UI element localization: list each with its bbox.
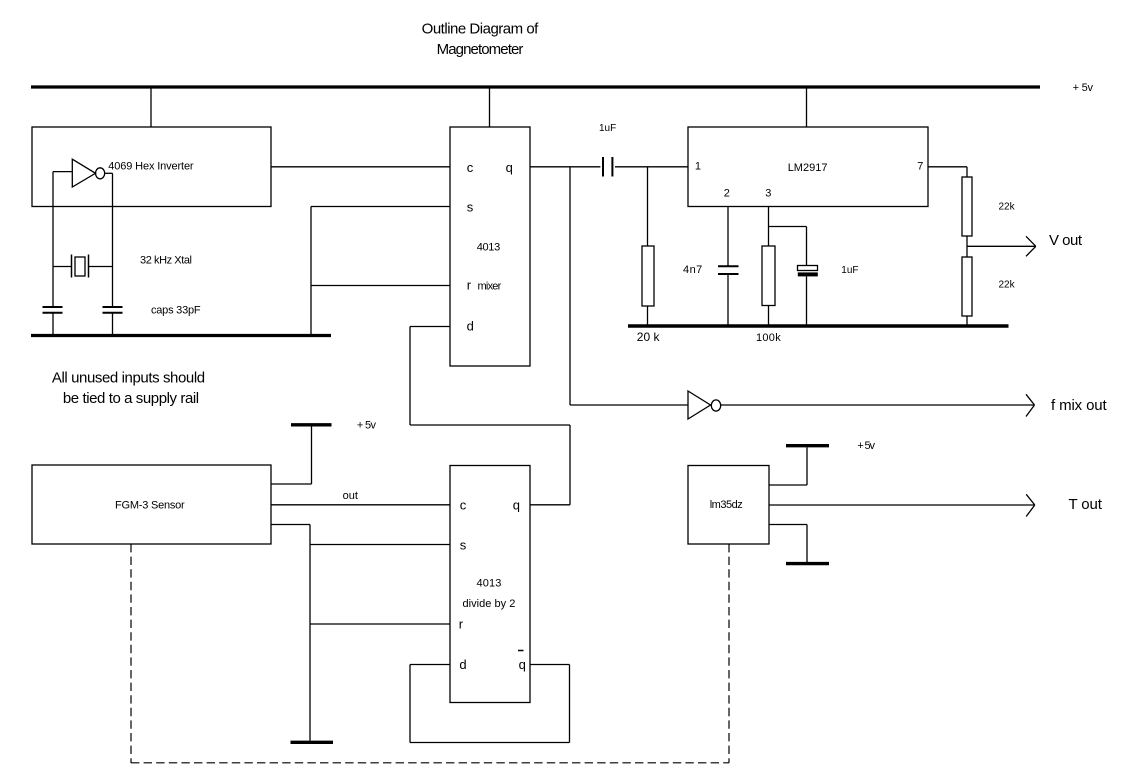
wire divider q to mixer d	[530, 504, 570, 506]
svg-text:4069 Hex Inverter: 4069 Hex Inverter	[108, 160, 194, 172]
svg-text:c: c	[460, 497, 467, 512]
crystal X1 32 kHz	[53, 266, 72, 268]
svg-text:divide by 2: divide by 2	[463, 598, 516, 610]
+5v supply bar FGM	[291, 423, 332, 426]
capacitor C4 4n7	[718, 265, 739, 267]
svg-text:V out: V out	[1049, 232, 1083, 249]
qbar overbar	[518, 650, 524, 652]
capacitor C1 33pF	[43, 306, 63, 308]
wire right feedback vertical	[112, 173, 114, 306]
wire left feedback vertical	[52, 172, 54, 306]
svg-text:s: s	[467, 200, 474, 215]
wire rail to 4013 mixer	[489, 89, 491, 128]
wire lm35 supply	[806, 447, 808, 485]
+5v supply bar lm35	[786, 444, 829, 447]
svg-text:All unused inputs should: All unused inputs should	[52, 370, 205, 387]
resistor R2 100k	[762, 246, 775, 306]
svg-text:4013: 4013	[477, 241, 501, 253]
inverter gate U1b f mix	[688, 391, 711, 419]
svg-text:lm35dz: lm35dz	[710, 499, 743, 511]
ground bus left	[31, 334, 331, 337]
wire pin 3 branch to C5	[769, 226, 807, 228]
wire rail to 4069 box	[150, 89, 152, 128]
dashed sensor cable right	[728, 544, 730, 763]
IC U3 LM2917 box	[688, 127, 928, 207]
svg-text:caps 33pF: caps 33pF	[151, 305, 201, 317]
svg-text:4013: 4013	[477, 578, 502, 590]
wire mixer r pin	[311, 285, 450, 287]
ground bus under LM2917	[628, 324, 1009, 328]
wire f mix out	[721, 404, 1034, 406]
wire FGM out to divider clock	[271, 504, 450, 506]
IC U5 lm35dz box	[688, 466, 769, 545]
svg-text:f mix out: f mix out	[1051, 397, 1108, 414]
resistor R4 22k	[962, 257, 972, 316]
arrow T out	[1026, 494, 1035, 516]
svg-text:r: r	[459, 617, 464, 632]
wire V out	[967, 245, 1035, 247]
inverter gate U1a	[72, 159, 95, 187]
note text	[52, 370, 205, 407]
ground bar lm35	[786, 562, 829, 565]
wire FGM supply	[311, 427, 313, 485]
wire mixer d feedback path	[410, 326, 450, 328]
svg-text:22k: 22k	[999, 279, 1016, 290]
IC U1 4069 Hex Inverter box	[32, 127, 271, 207]
svg-text:2: 2	[724, 187, 730, 199]
dashed sensor cable left	[130, 544, 132, 763]
wire divider s pin	[310, 544, 450, 546]
svg-text:1: 1	[695, 161, 701, 173]
resistor R1 20k	[642, 246, 654, 306]
wire pin 7 to divider	[928, 166, 967, 168]
capacitor C5 1uF electrolytic	[798, 266, 818, 271]
resistor R3 22k	[962, 177, 972, 236]
capacitor C2 33pF	[103, 306, 123, 308]
wire pin 2 down	[727, 207, 729, 266]
+5v power rail	[31, 85, 1040, 88]
svg-text:1uF: 1uF	[841, 265, 858, 276]
IC U2 4013 mixer box	[450, 127, 530, 366]
svg-text:be tied to a supply rail: be tied to a supply rail	[63, 390, 199, 407]
svg-text:s: s	[460, 538, 467, 553]
svg-text:d: d	[467, 319, 474, 334]
wire pin 3 down	[768, 207, 770, 247]
ground bar bottom	[291, 741, 334, 744]
svg-text:3: 3	[765, 187, 771, 199]
wire T out	[769, 504, 1034, 506]
IC U4 4013 divide by 2 box	[450, 466, 530, 703]
wire rail to LM2917	[806, 89, 808, 128]
wire pin1 node down to R 20k	[647, 167, 649, 246]
svg-text:+ 5v: + 5v	[857, 440, 875, 452]
svg-text:q: q	[513, 497, 520, 512]
svg-text:100k: 100k	[756, 332, 781, 344]
svg-text:mixer: mixer	[478, 280, 502, 292]
dashed sensor cable bottom	[131, 762, 729, 764]
wire mixer q down to f mix inverter	[569, 167, 571, 405]
capacitor C3 1uF coupling	[602, 157, 604, 177]
wire mixer q output	[530, 166, 600, 168]
svg-text:1uF: 1uF	[599, 123, 616, 134]
arrow f mix out	[1026, 394, 1035, 416]
wire 4069 output to mixer clock c	[271, 166, 450, 168]
wire to f mix inverter	[570, 404, 688, 406]
svg-text:Magnetometer: Magnetometer	[437, 41, 524, 58]
wire divider r pin	[310, 623, 450, 625]
svg-text:Outline Diagram of: Outline Diagram of	[422, 21, 540, 38]
svg-text:LM2917: LM2917	[788, 162, 828, 174]
svg-text:+ 5v: + 5v	[1073, 82, 1094, 94]
svg-text:q: q	[506, 160, 513, 175]
svg-text:32 kHz Xtal: 32 kHz Xtal	[140, 255, 192, 267]
wire lm35 ground	[769, 524, 807, 526]
svg-text:out: out	[343, 490, 358, 502]
svg-text:+ 5v: + 5v	[357, 420, 377, 432]
svg-text:T out: T out	[1069, 496, 1103, 513]
svg-text:q: q	[519, 657, 526, 672]
svg-text:c: c	[467, 160, 474, 175]
sensor FGM-3 box	[32, 465, 271, 544]
svg-text:FGM-3 Sensor: FGM-3 Sensor	[115, 499, 185, 511]
title	[422, 21, 540, 59]
svg-text:d: d	[459, 657, 466, 672]
svg-text:20 k: 20 k	[637, 330, 661, 344]
wire inverter input	[53, 171, 72, 173]
svg-text:22k: 22k	[999, 201, 1016, 212]
wire cap to LM2917 pin 1	[615, 166, 688, 168]
wire FGM ground pin	[271, 524, 310, 526]
svg-text:4n7: 4n7	[683, 264, 702, 276]
svg-text:7: 7	[917, 161, 923, 173]
arrow V out	[1026, 236, 1036, 256]
wire divider qbar	[530, 664, 570, 666]
wire mixer s pin	[311, 206, 450, 208]
wire divider d feedback	[410, 664, 450, 666]
svg-text:r: r	[467, 277, 472, 292]
wire inverter output	[105, 172, 113, 174]
wire s/r tie vertical to ground	[310, 207, 312, 336]
